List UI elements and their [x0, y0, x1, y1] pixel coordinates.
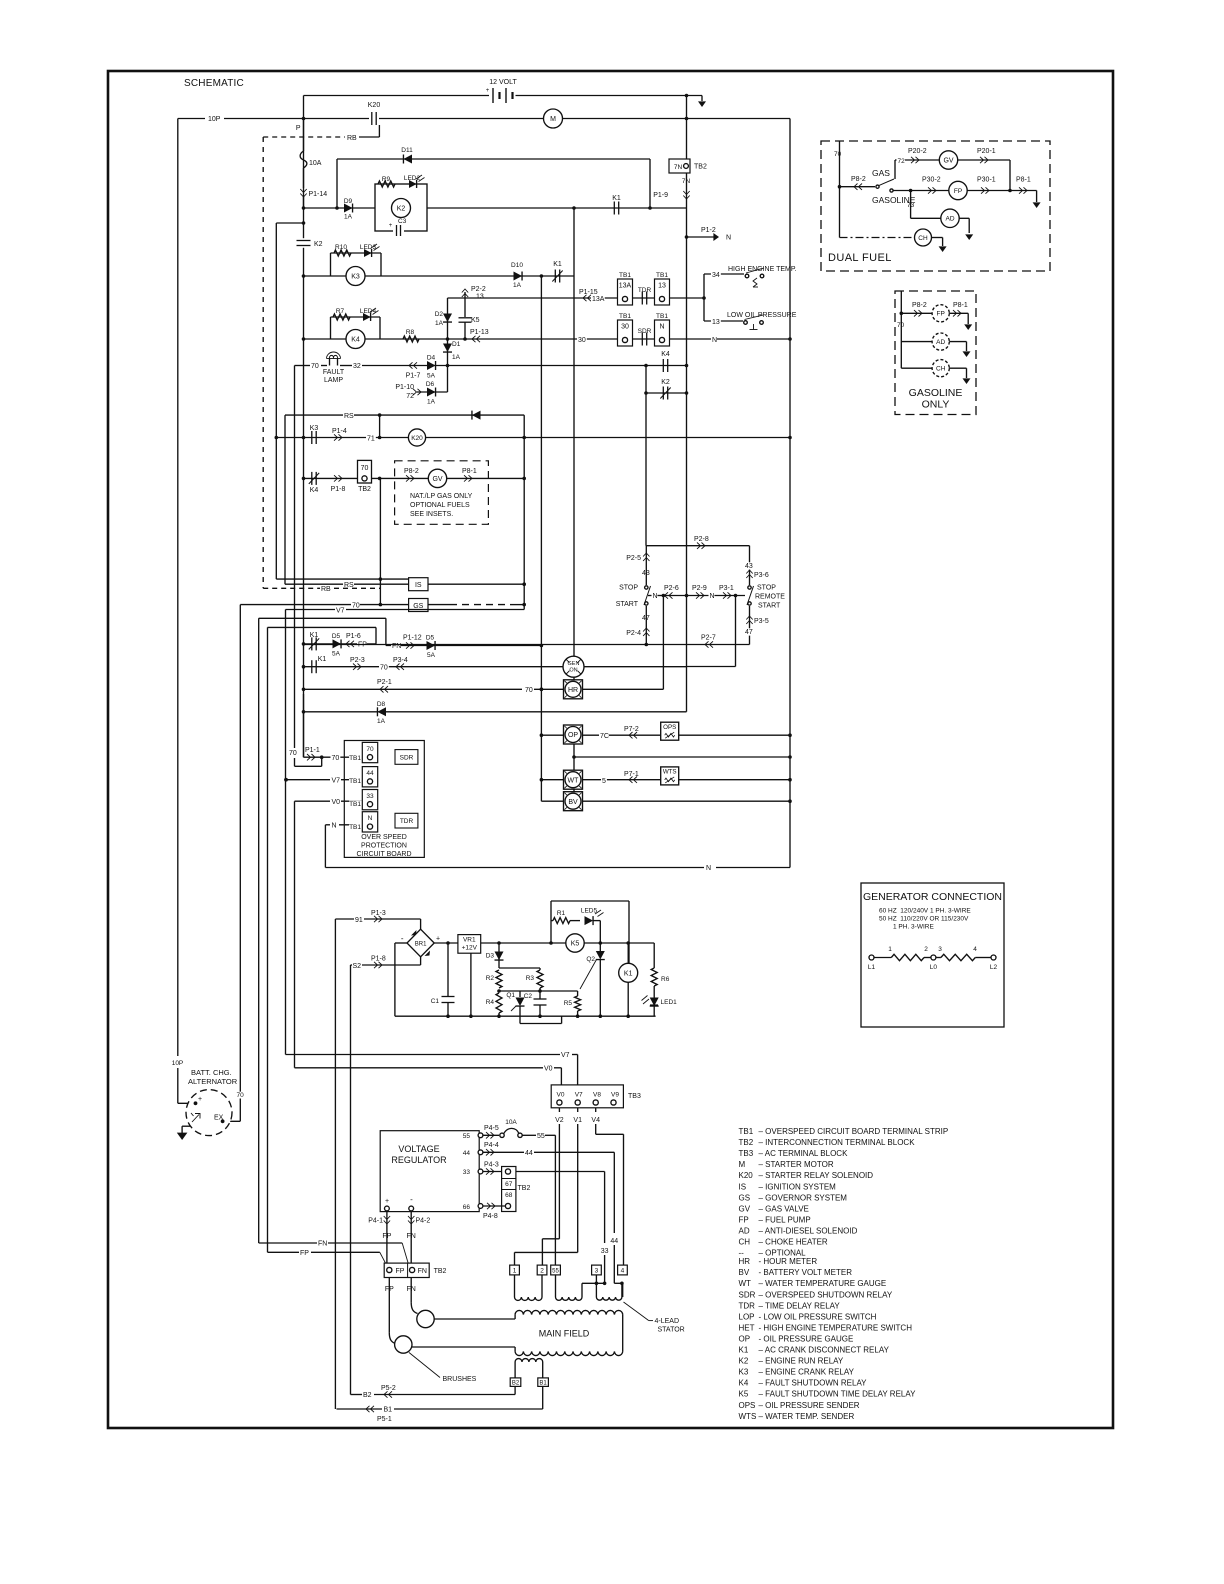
svg-text:P3-5: P3-5 — [754, 618, 769, 625]
svg-text:70: 70 — [361, 465, 369, 472]
diode D6 1A — [426, 381, 436, 406]
connector P8-2 (GV row) — [404, 468, 419, 482]
svg-text:WTS: WTS — [739, 1412, 757, 1421]
svg-text:K2: K2 — [314, 241, 323, 248]
generator winding L1-L0-L2 — [868, 946, 998, 971]
wire FN column x=258.7 — [258, 618, 260, 1243]
svg-text:33: 33 — [463, 1169, 471, 1176]
battery volt meter BV — [564, 792, 583, 811]
svg-text:P1-14: P1-14 — [309, 191, 328, 198]
wire D8 row y=711.8 — [302, 710, 687, 714]
svg-text:+: + — [389, 223, 393, 229]
svg-text:- LOW OIL PRESSURE SWITCH: - LOW OIL PRESSURE SWITCH — [759, 1312, 877, 1321]
svg-text:N: N — [659, 324, 664, 331]
terminal TB1 30 — [618, 313, 633, 346]
node K5-bottom junction — [463, 337, 467, 341]
wire D11 row y=159 — [337, 158, 650, 160]
svg-text:13: 13 — [476, 294, 484, 301]
connector P1-10 72 — [395, 384, 421, 400]
svg-text:R3: R3 — [526, 975, 535, 982]
inset box DUAL FUEL (dashed) — [821, 141, 1050, 271]
wire P1-1 70 row y=757.2 — [304, 694, 363, 762]
svg-text:FP: FP — [300, 1250, 309, 1257]
svg-text:13: 13 — [712, 319, 720, 326]
svg-text:ONLY: ONLY — [922, 399, 950, 411]
svg-text:D9: D9 — [344, 198, 353, 205]
svg-text:N: N — [653, 593, 658, 600]
svg-text:FN: FN — [418, 1268, 427, 1275]
svg-text:70: 70 — [366, 746, 374, 753]
wire V1 jog to terminal 1 — [515, 1252, 578, 1265]
svg-text:V0: V0 — [544, 1066, 553, 1073]
svg-text:N: N — [706, 865, 711, 872]
svg-text:-: - — [401, 934, 404, 943]
svg-text:BV: BV — [739, 1268, 750, 1277]
svg-text:– OVERSPEED SHUTDOWN RELAY: – OVERSPEED SHUTDOWN RELAY — [759, 1290, 893, 1299]
terminal TB1 70 (board) — [349, 742, 378, 762]
svg-text:P2-7: P2-7 — [701, 635, 716, 642]
wire FP/K1 row y=643.9 — [302, 642, 376, 646]
svg-text:K2: K2 — [661, 379, 670, 386]
diode LED1 — [642, 986, 678, 1016]
contact K4 on fault row — [661, 351, 670, 372]
svg-text:33: 33 — [601, 1248, 609, 1255]
wire GEN ON row y=666.7 — [302, 665, 687, 669]
svg-text:72: 72 — [406, 393, 414, 400]
label N on SDR row — [711, 336, 792, 344]
svg-text:TB1: TB1 — [349, 778, 361, 785]
wire GS output dashed to x=524 — [428, 603, 526, 607]
svg-text:-: - — [410, 1195, 413, 1204]
connector P30-1 — [967, 177, 1036, 194]
svg-text:TB3: TB3 — [628, 1093, 641, 1100]
relay box SDR (board) — [395, 750, 418, 765]
relay K3 with R10 LED3 — [331, 244, 382, 286]
wire HET/LOP bracket x=704 — [703, 274, 705, 321]
diode D3 — [486, 943, 504, 968]
label 70 fault row — [311, 363, 319, 370]
svg-text:P1-9: P1-9 — [653, 192, 668, 199]
choke heater CH (dual fuel) — [840, 229, 947, 252]
svg-text:R6: R6 — [661, 976, 670, 983]
label 47 (local) — [642, 606, 650, 645]
svg-text:60 HZ 120/240V 1 PH. 3-WIRE: 60 HZ 120/240V 1 PH. 3-WIRE — [879, 908, 971, 915]
wire K20 coil row y=437.5 — [276, 436, 790, 440]
node RS-K20 branch — [378, 413, 382, 439]
svg-text:D3: D3 — [486, 953, 495, 960]
contact K4 NC on GV row — [309, 472, 319, 494]
wire RS/IS row y=584.2 — [285, 582, 409, 589]
wire K2 coil row y=208 — [302, 206, 687, 210]
svg-text:P1-12: P1-12 — [403, 635, 422, 642]
capacitor-contact K2 on main column — [295, 238, 323, 248]
svg-text:13: 13 — [658, 283, 666, 290]
wire B1 column x=335.4 — [334, 919, 336, 1409]
svg-text:1: 1 — [513, 1267, 517, 1274]
wire 70 column x=240.3 (GS to alternator EX) — [223, 605, 245, 1122]
choke heater CH (gasoline only) — [901, 360, 970, 384]
connector P2-3 70 P3-4 — [350, 657, 408, 671]
svg-text:- HIGH ENGINE TEMPERATURE SWIT: - HIGH ENGINE TEMPERATURE SWITCH — [759, 1323, 913, 1332]
wire RB row y=588.3 (dashed) — [263, 586, 380, 593]
svg-text:1 PH. 3-WIRE: 1 PH. 3-WIRE — [893, 924, 934, 931]
node P junction on column 303.5 — [296, 117, 305, 132]
svg-text:CH: CH — [936, 365, 946, 372]
wire BV row y=801.2 — [541, 799, 791, 803]
wire K3 coil row y=276 — [302, 274, 574, 278]
svg-text:BATT. CHG.: BATT. CHG. — [191, 1068, 232, 1077]
svg-text:V7: V7 — [336, 608, 345, 615]
indicator lamp GEN ON — [563, 656, 584, 677]
wire lower brush to main field — [412, 1346, 515, 1348]
wire WT row y=779.7 — [540, 778, 792, 782]
svg-text:V0: V0 — [557, 1092, 565, 1099]
svg-text:P1-3: P1-3 — [371, 910, 386, 917]
svg-text:D10: D10 — [511, 262, 523, 269]
connector P2-4 — [626, 628, 649, 637]
svg-text:43: 43 — [745, 563, 753, 570]
wire N remote row y=595.5 — [662, 594, 745, 598]
node 13 row - HET bracket — [702, 296, 706, 300]
label 32 — [352, 362, 362, 370]
svg-text:5A: 5A — [332, 651, 341, 658]
svg-text:S2: S2 — [353, 963, 362, 970]
wire V0 row to TB3 y=1067.8 — [295, 1066, 562, 1085]
svg-text:10A: 10A — [309, 160, 322, 167]
svg-text:66: 66 — [463, 1204, 471, 1211]
switch STOP/REMOTE START — [747, 585, 785, 610]
relay coil K1 (regulator) — [619, 943, 638, 1016]
wire SDR row labels 30 N — [577, 336, 587, 344]
svg-text:4: 4 — [621, 1267, 625, 1274]
switch LOW OIL PRESSURE — [704, 312, 797, 330]
capacitor-contact K5 — [459, 317, 480, 339]
wire FN row y=1243 — [259, 1241, 409, 1266]
connector P1-4 71 — [332, 428, 376, 443]
anti-diesel solenoid AD (dual fuel) — [911, 191, 974, 241]
svg-text:72: 72 — [898, 158, 906, 165]
svg-text:– ANTI-DIESEL SOLENOID: – ANTI-DIESEL SOLENOID — [759, 1226, 858, 1235]
svg-text:P5-1: P5-1 — [377, 1416, 392, 1423]
arrow to frame ground (top right) — [698, 96, 706, 108]
diode D10 1A — [511, 262, 523, 289]
diode LED5 — [581, 908, 604, 944]
svg-text:GEN: GEN — [568, 661, 580, 667]
svg-text:– FAULT SHUTDOWN RELAY: – FAULT SHUTDOWN RELAY — [759, 1379, 868, 1388]
wire HR row y=689.3 — [302, 688, 564, 692]
wire gauges feed column x=541.4 — [540, 276, 544, 801]
node start column bottom — [645, 643, 649, 647]
svg-text:LOP: LOP — [739, 1312, 755, 1321]
svg-text:P8-1: P8-1 — [953, 302, 968, 309]
svg-text:P4-1: P4-1 — [368, 1218, 383, 1225]
svg-text:D11: D11 — [401, 147, 413, 154]
wire V0 column x=294.5 lower — [294, 801, 296, 1068]
svg-text:FAULT: FAULT — [323, 369, 345, 376]
thyristor Q1 — [506, 991, 524, 1011]
svg-text:44: 44 — [366, 770, 374, 777]
svg-text:3: 3 — [595, 1267, 599, 1274]
terminal TB1 33 (board) — [349, 790, 378, 810]
svg-text:R7: R7 — [336, 308, 345, 315]
svg-text:AD: AD — [945, 216, 954, 223]
connector P3-6 — [746, 570, 769, 579]
svg-text:VOLTAGE: VOLTAGE — [398, 1144, 439, 1154]
svg-text:+: + — [436, 936, 440, 943]
wire 10P column x=177.8 — [171, 119, 195, 1104]
svg-text:OPTIONAL FUELS: OPTIONAL FUELS — [410, 502, 470, 509]
svg-text:Q2: Q2 — [586, 956, 595, 963]
gas valve GV (dual fuel) — [939, 151, 957, 169]
stator terminal 55 — [551, 1265, 561, 1275]
svg-text:TB1: TB1 — [739, 1127, 754, 1136]
svg-text:P2-2: P2-2 — [471, 286, 486, 293]
svg-text:7N: 7N — [674, 164, 683, 171]
overspeed circuit board box — [344, 741, 424, 858]
svg-text:D5: D5 — [426, 635, 435, 642]
svg-text:– ENGINE RUN RELAY: – ENGINE RUN RELAY — [759, 1357, 844, 1366]
svg-text:R9: R9 — [382, 176, 391, 183]
wire P2-8 row y=545.7 — [646, 536, 749, 549]
svg-text:- OIL PRESSURE GAUGE: - OIL PRESSURE GAUGE — [759, 1334, 854, 1343]
svg-text:P3-1: P3-1 — [719, 585, 734, 592]
wire column x=524.2 (RS loop) — [522, 415, 526, 609]
svg-text:K20: K20 — [368, 102, 381, 109]
resistor R4 — [486, 993, 502, 1016]
svg-text:1A: 1A — [452, 354, 461, 361]
svg-text:P2-5: P2-5 — [626, 555, 641, 562]
alternator ground — [177, 1126, 191, 1140]
svg-text:10P: 10P — [208, 116, 221, 123]
svg-text:LED4: LED4 — [360, 308, 377, 315]
svg-text:R4: R4 — [486, 999, 495, 1006]
wire V7 row to TB3 y=1054.5 — [286, 1052, 578, 1085]
svg-text:FP: FP — [937, 311, 945, 318]
svg-text:34: 34 — [712, 272, 720, 279]
svg-text:P1-8: P1-8 — [331, 486, 346, 493]
terminal B2 — [510, 1378, 521, 1387]
svg-text:V7: V7 — [332, 777, 341, 784]
svg-text:R8: R8 — [406, 329, 415, 336]
svg-text:P4-4: P4-4 — [484, 1142, 499, 1149]
oil pressure gauge OP — [564, 725, 583, 744]
stator winding 55-33 — [556, 1275, 607, 1300]
svg-text:+: + — [486, 88, 490, 94]
diode D11 — [401, 147, 413, 164]
svg-text:P2-1: P2-1 — [377, 679, 392, 686]
svg-text:START: START — [758, 603, 781, 610]
svg-text:+: + — [385, 1198, 389, 1205]
svg-text:4: 4 — [973, 946, 977, 953]
svg-text:– AC CRANK DISCONNECT RELAY: – AC CRANK DISCONNECT RELAY — [759, 1346, 890, 1355]
wire N column x=325.4 and long N row y=867.5 — [325, 825, 790, 872]
svg-text:70: 70 — [289, 750, 297, 757]
connector P1-8 (GV row) — [331, 475, 346, 493]
resistor R6 — [651, 943, 669, 986]
svg-text:P1-10: P1-10 — [395, 384, 414, 391]
connector P1-9 — [653, 191, 689, 199]
svg-text:TB2: TB2 — [358, 486, 371, 493]
svg-text:P1-8: P1-8 — [371, 956, 386, 963]
voltage regulator box — [380, 1131, 479, 1212]
wire 10P / M row y=118.5 — [178, 118, 790, 120]
contact K3 on K20 row — [310, 425, 319, 444]
svg-text:P7-1: P7-1 — [624, 771, 639, 778]
stator terminal 4 — [618, 1265, 628, 1275]
svg-text:V9: V9 — [611, 1092, 619, 1099]
svg-text:RS: RS — [344, 413, 354, 420]
terminal TB1 44 (board) — [349, 767, 378, 787]
node K20 row x=790 junction — [788, 436, 792, 440]
stator winding 1-2 — [515, 1275, 543, 1301]
wire FP column x=267.5 — [267, 627, 269, 1252]
connector P3-1 — [719, 585, 734, 599]
svg-text:P3-6: P3-6 — [754, 572, 769, 579]
stator winding 3-4 — [596, 1282, 623, 1301]
wire P3-1 column x=735.5 — [687, 596, 736, 667]
terminal TB1 13A — [618, 272, 633, 305]
label 47 (remote) — [744, 628, 754, 636]
svg-text:32: 32 — [353, 363, 361, 370]
svg-text:LAMP: LAMP — [324, 377, 343, 384]
svg-text:P2-9: P2-9 — [692, 585, 707, 592]
regulator terminal 55 + fuse 10A — [463, 1119, 556, 1265]
wire RS column x=285 upper — [284, 415, 286, 584]
svg-text:TDR: TDR — [400, 818, 414, 825]
svg-text:GV: GV — [432, 476, 442, 483]
battery BT1 12 VOLT — [486, 79, 518, 103]
svg-text:BR1: BR1 — [415, 942, 427, 948]
wire V4 column from TB3 — [591, 1108, 623, 1265]
wire 13A row y=298 — [465, 297, 704, 299]
svg-text:TDR: TDR — [638, 287, 652, 294]
svg-text:P3-4: P3-4 — [393, 657, 408, 664]
svg-text:TB1: TB1 — [349, 801, 361, 808]
inset box GENERATOR CONNECTION — [861, 883, 1004, 1027]
switch STOP/START (local) — [616, 585, 664, 609]
resistor R8 — [403, 329, 419, 342]
connector P2-5 — [626, 553, 649, 562]
connector P2-2 13 — [462, 286, 486, 317]
terminal TB1 13 — [655, 272, 670, 305]
inset box NAT./LP GAS ONLY (dashed) — [395, 461, 489, 525]
wire start column upper x=646.3 — [645, 546, 647, 585]
svg-text:K2: K2 — [739, 1357, 749, 1366]
svg-text:SCHEMATIC: SCHEMATIC — [184, 78, 244, 89]
svg-text:RB: RB — [321, 586, 331, 593]
svg-text:K1: K1 — [318, 656, 327, 663]
svg-text:BV: BV — [568, 799, 578, 806]
svg-text:B2: B2 — [363, 1392, 372, 1399]
svg-text:VR1: VR1 — [463, 937, 476, 944]
svg-text:K3: K3 — [351, 273, 360, 280]
fault lamp — [323, 352, 345, 384]
svg-text:Q1: Q1 — [506, 992, 515, 999]
wire stop/start bottom row y=644.5 — [304, 644, 750, 646]
svg-text:B1: B1 — [539, 1380, 547, 1386]
node K3row-541 junction — [540, 274, 544, 278]
wire V1 column from TB3 — [573, 1108, 582, 1253]
svg-text:N: N — [332, 823, 337, 830]
wire FP upper row y=627.4 — [268, 627, 377, 644]
svg-text:44: 44 — [525, 1150, 533, 1157]
svg-text:R10: R10 — [335, 244, 347, 251]
wire IS upper row y=579.1 — [276, 578, 408, 580]
svg-text:10A: 10A — [505, 1119, 517, 1126]
wire D6 row y=392 — [417, 366, 448, 393]
svg-text:D2: D2 — [435, 311, 444, 318]
svg-text:P1-13: P1-13 — [470, 329, 489, 336]
label 70 on fault-lamp column — [288, 749, 298, 757]
connector P30-2 — [909, 177, 949, 194]
label 43 (local) — [642, 570, 650, 577]
wire P2-6 column x=663.4 — [582, 596, 663, 690]
wire FN row y=645.5 — [386, 644, 543, 648]
terminal B1 — [538, 1378, 549, 1387]
diode D8 1A — [377, 701, 386, 725]
svg-text:BRUSHES: BRUSHES — [443, 1376, 477, 1383]
svg-text:TB2: TB2 — [694, 164, 707, 171]
svg-text:K1: K1 — [739, 1346, 749, 1355]
svg-text:1A: 1A — [427, 399, 436, 406]
svg-text:V8: V8 — [593, 1092, 601, 1099]
svg-text:M: M — [739, 1160, 746, 1169]
wire P8-2 lead — [840, 176, 876, 190]
svg-text:TB1: TB1 — [349, 824, 361, 831]
svg-text:FP: FP — [396, 1268, 405, 1275]
svg-text:P1-15: P1-15 — [579, 289, 598, 296]
node GV row branch x=380 — [378, 477, 382, 481]
terminal block TB2 67/68 — [502, 1167, 531, 1212]
governor system GS box — [409, 599, 428, 612]
svg-text:2: 2 — [540, 1267, 544, 1274]
contact K1 NC on FP row — [309, 632, 319, 650]
connector P3-5 — [746, 616, 769, 625]
svg-text:44: 44 — [463, 1150, 471, 1157]
fuse 10A on column 303.5 — [300, 96, 322, 189]
svg-text:SDR: SDR — [739, 1290, 756, 1299]
svg-text:TB1: TB1 — [656, 313, 668, 320]
svg-text:P5-2: P5-2 — [381, 1385, 396, 1392]
svg-text:STOP: STOP — [619, 585, 638, 592]
connector P20-1 — [958, 148, 1010, 191]
svg-text:R2: R2 — [486, 975, 495, 982]
stator terminal 1 — [510, 1265, 520, 1275]
relay K2 with R9 LED2 C3 — [375, 175, 427, 236]
node K2row-574 junction — [572, 206, 576, 210]
svg-text:K4: K4 — [310, 487, 319, 494]
svg-text:FP: FP — [382, 1233, 391, 1240]
connector P2-7 — [701, 635, 716, 648]
wire remote column x=749.5 — [749, 546, 751, 645]
fuel pump FP (gasoline only) — [901, 302, 972, 330]
wire GS row y=604.6 — [240, 603, 408, 610]
terminal block TB2 FP/FN — [384, 1263, 446, 1293]
svg-text:30: 30 — [578, 337, 586, 344]
node D11 branch on K2 row — [335, 206, 339, 210]
svg-text:GV: GV — [739, 1204, 751, 1213]
resistor R2 — [486, 970, 502, 988]
contact K2 NC on start chain — [660, 379, 670, 400]
wire fault lamp row y=365.5 — [295, 365, 687, 367]
connector P1-13 — [470, 329, 489, 342]
svg-text:TB2: TB2 — [518, 1185, 531, 1192]
svg-text:TB1: TB1 — [619, 313, 631, 320]
svg-text:SDR: SDR — [400, 755, 414, 762]
stator terminal 2 — [537, 1265, 547, 1275]
svg-text:– OIL PRESSURE SENDER: – OIL PRESSURE SENDER — [759, 1401, 860, 1410]
svg-text:P8-1: P8-1 — [462, 468, 477, 475]
